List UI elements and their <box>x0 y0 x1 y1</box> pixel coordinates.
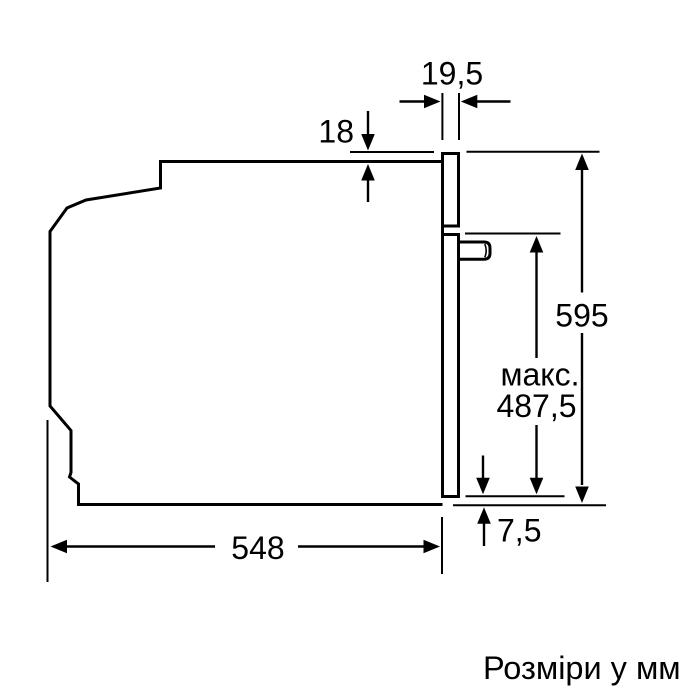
svg-text:Розміри у мм: Розміри у мм <box>483 650 681 686</box>
dimension 19,5 left arrow <box>400 100 427 102</box>
svg-text:18: 18 <box>318 114 354 150</box>
dimension 548 line right arrow <box>298 545 424 547</box>
oven bottom reference line <box>453 504 606 506</box>
dimension 18 up arrow <box>361 164 375 181</box>
oven door front <box>443 235 459 497</box>
svg-text:487,5: 487,5 <box>496 388 576 424</box>
extension line 19,5 left <box>441 93 443 140</box>
dimension 18 down arrow <box>367 111 369 136</box>
door handle <box>459 242 491 259</box>
extension line 19,5 right <box>458 93 460 140</box>
svg-text:19,5: 19,5 <box>421 56 483 92</box>
extension line 548 left <box>47 420 49 582</box>
svg-text:548: 548 <box>231 530 284 566</box>
control panel front <box>443 154 459 227</box>
dimension 7,5 up arrow <box>477 507 491 524</box>
svg-text:7,5: 7,5 <box>497 513 541 549</box>
door bottom reference line <box>466 495 565 497</box>
handle end cap line <box>485 244 486 257</box>
dimension 487,5 line <box>530 236 544 253</box>
dimension 7,5 down arrow <box>482 456 484 480</box>
extension line 548 right <box>441 517 443 574</box>
svg-text:595: 595 <box>555 298 608 334</box>
door top reference line right <box>467 151 600 153</box>
dimension 595 line <box>575 154 589 171</box>
oven body outline <box>50 162 443 505</box>
dimension 548 line left arrow <box>51 540 68 554</box>
door top reference line left <box>350 151 434 153</box>
dimension 19,5 right arrow <box>475 100 511 102</box>
front frame connector <box>441 226 444 235</box>
door seam reference line <box>465 233 561 235</box>
